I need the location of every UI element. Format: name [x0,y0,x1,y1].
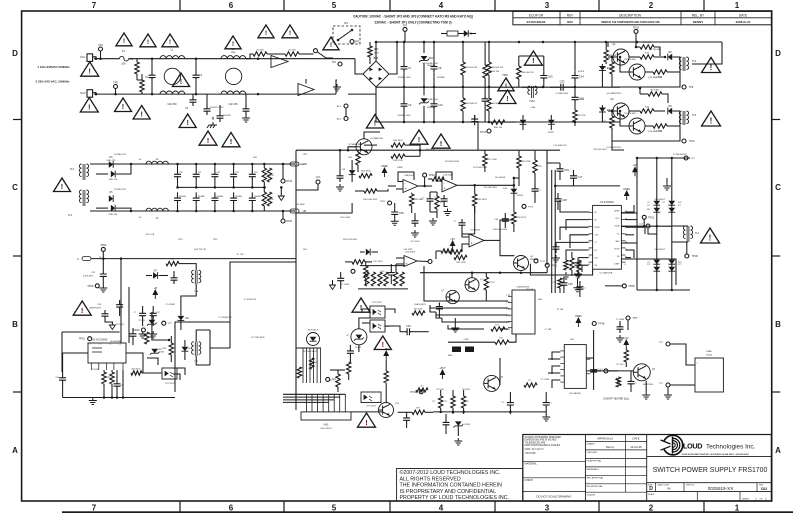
svg-text:R39 1K00 0603: R39 1K00 0603 [343,239,358,241]
wire UREF feed [554,185,620,188]
svg-text:TP38: TP38 [598,322,605,326]
svg-text:2MH: 2MH [231,52,236,54]
output tag +UB [290,162,307,166]
svg-text:Denny: Denny [606,445,615,449]
svg-text:2 230÷240 VAC, 50/60Hz: 2 230÷240 VAC, 50/60Hz [36,79,70,83]
svg-text:SYNC: SYNC [595,227,601,229]
svg-text:R? 1K0: R? 1K0 [617,364,625,366]
svg-text:!: ! [365,418,368,427]
svg-text:S20: S20 [678,262,681,264]
test point TP52 [100,243,107,252]
svg-text:FR107: FR107 [548,132,555,134]
resistor R21 [391,140,405,147]
capacitor C63 [336,172,344,191]
capacitor C1 [145,57,156,95]
wire lower bus drop [477,122,479,150]
wire bottom left link [330,369,345,371]
label smear 26 [374,261,384,263]
test point TP3 [350,40,360,44]
resistor R24 [355,189,388,193]
svg-text:U6 SG6848T: U6 SG6848T [110,341,123,343]
output tag -UB [290,209,307,213]
svg-text:4.7K 0603: 4.7K 0603 [425,149,435,151]
svg-text:!: ! [88,103,91,112]
test point TP13 [480,129,491,134]
resistor R48 [562,258,570,279]
svg-text:±1/64 .XX ±.01 ±1°: ±1/64 .XX ±.01 ±1° [525,449,544,451]
svg-text:1: 1 [735,1,740,10]
fuse F1 [120,50,129,66]
test point TP31 [659,342,695,365]
test point TP36 [133,328,145,332]
svg-text:D5: D5 [668,50,672,54]
wire AC line top [94,58,120,60]
svg-text:R34 1K74: R34 1K74 [517,217,527,219]
wire housekeeping link [147,358,158,365]
diode D14 [178,308,190,330]
resistor R12 [629,53,665,60]
connector KN-2 [80,90,97,98]
capacitor CC1 [421,192,433,212]
wire U1A in [388,186,403,189]
ground 5 [663,178,671,190]
svg-text:C16 10MF 25V: C16 10MF 25V [553,145,567,147]
warning triangle T1 [116,33,132,46]
zener D16 [150,349,163,355]
svg-text:U1D 3403: U1D 3403 [405,252,416,254]
warning triangle W8 [222,133,240,147]
capacitor C6 [243,94,250,115]
label smear 58 [99,254,244,259]
resistor R16b [517,150,532,178]
svg-text:1: 1 [735,504,740,513]
transformer TL4 [672,226,700,242]
PWM IC U2 [589,201,628,269]
test point TP21 [642,215,655,226]
capacitor C58 [628,371,638,392]
resistor RD2 [416,386,428,393]
label smear 23 [445,161,460,163]
svg-text:C02: C02 [761,487,768,491]
svg-text:REMOVE THE COMPONENTS AND ASSO: REMOVE THE COMPONENTS AND ASSOCIATED USE [601,21,660,24]
svg-text:U5 U08: U5 U08 [256,50,264,52]
input voltage note [36,65,71,83]
svg-text:5: 5 [332,504,337,513]
resistor R26 [428,177,444,181]
opto U10 [361,392,381,407]
resistor R35 [160,336,173,362]
svg-text:KN-2: KN-2 [80,93,86,95]
wire U1A fb [398,172,414,182]
svg-text:UAF 250: UAF 250 [167,103,177,106]
svg-text:+5V: +5V [450,237,455,241]
svg-text:2 TR: 2 TR [506,302,511,304]
svg-text:(ON/OFF HEATER 2(s)): (ON/OFF HEATER 2(s)) [603,398,629,401]
test point TP4 [332,62,342,66]
diode DC1 [360,249,378,256]
resistor RC2 [435,192,444,218]
label smear 31 [538,299,542,301]
inductor L3 [221,48,246,59]
capacitor C62 [453,219,465,229]
inrush resistor RT3 [267,50,314,57]
svg-text:TP30: TP30 [692,254,699,258]
svg-text:C43 47PF: C43 47PF [403,249,413,251]
svg-text:R7 56K 2W: R7 56K 2W [488,71,500,73]
warning triangle T6 [282,25,298,38]
capacitor C39 [434,195,451,216]
svg-text:B: B [12,320,18,329]
warning triangle T4 [225,36,241,49]
resistor R6 [487,87,500,122]
svg-text:TP51: TP51 [79,337,86,341]
wire pin14 out [621,225,671,228]
caution note text [353,14,473,24]
resistor R15 [640,90,668,104]
capacitor C41 [381,264,395,284]
svg-text:C17: C17 [578,175,583,179]
resistor R27 [473,185,488,213]
optocoupler U7 [162,368,177,385]
title block number row [648,483,767,501]
test point TPC [296,176,321,191]
resistor RA1 [365,272,369,286]
transformer L5A2 [522,86,542,103]
label smear 29 [295,204,305,206]
title block approvals column [585,435,646,497]
diode D9 [109,192,113,202]
svg-text:B: B [775,320,781,329]
wire output horizontal top [636,157,690,160]
svg-text:!: ! [330,42,332,49]
svg-text:R?: R? [433,401,435,403]
svg-text:7: 7 [92,1,97,10]
svg-text:5 TR: 5 TR [506,322,511,324]
svg-text:R66 560 2W: R66 560 2W [522,72,535,74]
title block outline [523,435,772,502]
connector KN3 pin wires [307,394,346,412]
svg-text:!: ! [140,110,142,119]
svg-text:TP?: TP? [316,176,321,180]
svg-text:1000MF: 1000MF [198,196,206,198]
svg-text:C9: C9 [408,103,412,107]
svg-text:U5A N BXXX: U5A N BXXX [414,303,426,306]
chassis ground [207,117,217,128]
label smear 4 [425,149,435,151]
wire R21 link [364,145,420,150]
svg-text:C? 470MF: C? 470MF [165,304,175,306]
resistor R13 [602,56,614,80]
capacitor C31 [576,281,586,297]
lamp HL1 [337,104,348,121]
svg-text:!: ! [180,77,182,86]
svg-text:R? 1K: R? 1K [489,282,495,284]
label smear 10 [116,324,125,326]
bleeder resistor R20b [267,192,271,206]
svg-text:1000MF: 1000MF [254,196,262,198]
svg-text:20A: 20A [121,63,126,66]
test point TP37 [595,369,618,373]
transistor QB [441,290,459,304]
svg-text:REV: REV [567,13,574,17]
svg-text:C53: C53 [560,80,565,84]
power arrow +HV [632,163,637,176]
heater note [603,398,629,401]
capacitor CE1 [443,414,450,434]
wire opto U7 out [173,368,185,380]
capacitor C46 [116,300,123,316]
svg-text:Q14 MMBT5551: Q14 MMBT5551 [607,147,623,149]
svg-text:THE INFORMATION CONTAINED HERE: THE INFORMATION CONTAINED HEREIN [400,483,503,489]
label smear 20 [403,249,413,251]
ground 7 [542,414,550,421]
bleeder resistor R19b [267,168,271,182]
svg-text:230VAC→SHORT JP1 ONLY (CONNECT: 230VAC→SHORT JP1 ONLY (CONNECTING TOM 3) [374,20,451,24]
wire net G [500,240,514,255]
svg-text:TL2: TL2 [70,168,75,171]
relay buffer B2 [298,79,314,96]
svg-text:PROPERTY OF LOUD TECHNOLOGIES: PROPERTY OF LOUD TECHNOLOGIES INC. [400,495,510,501]
capacitor C4 [204,94,224,115]
svg-text:R? 2K00: R? 2K00 [116,324,125,326]
label smear 28 [295,164,305,166]
resistor R49 [444,250,462,254]
wire net J [295,358,297,402]
resistor R38 [347,362,351,380]
test point TPF [410,390,423,394]
svg-text:CHECKED: CHECKED [587,452,598,454]
power arrow +B3 [384,347,389,371]
resistor R23 [359,171,372,178]
svg-text:GND: GND [615,241,620,243]
svg-text:C? 2200MF 200V: C? 2200MF 200V [422,99,438,101]
svg-text:!: ! [289,30,291,37]
label smear 45 [673,154,688,156]
jumper JP1 dashed box [333,22,360,44]
transistor Q1 [608,43,629,65]
resistor RA6 [400,272,404,286]
svg-text:6 TR: 6 TR [506,329,511,331]
warning triangle W22 [352,298,370,312]
capacitor C57 [590,330,604,390]
capacitor C40 [494,213,509,228]
diode D4 [599,105,614,122]
resistor RB2 [491,325,505,332]
svg-text:2: 2 [649,504,654,513]
svg-text:DATE: DATE [739,13,747,17]
svg-text:TP11: TP11 [540,261,546,263]
svg-text:+: + [406,262,408,266]
bulk capacitor C9 [397,87,411,122]
capacitor C49 [130,328,137,345]
svg-text:C50B: C50B [463,339,469,341]
label smear 2 [343,239,358,241]
svg-text:C? 47MF 25V: C? 47MF 25V [244,299,257,301]
svg-text:MOV: MOV [374,52,380,54]
capacitor CA1 [337,272,344,289]
diode D3 [599,64,614,87]
svg-text:7: 7 [92,504,97,513]
op-amp U1D [404,252,428,267]
wire PWM right pin 4 [625,234,634,236]
svg-text:R42 100K: R42 100K [456,262,466,264]
resistor R36 [166,259,190,266]
svg-text:R30 100K 0603: R30 100K 0603 [363,199,378,201]
svg-text:UAF 250: UAF 250 [228,103,238,106]
resistor R17 [602,110,614,134]
power arrow +5V b [624,336,629,349]
label smear 52 [303,154,309,251]
capacitor C54 [572,42,585,87]
label smear 33 [448,355,454,357]
wire bundle horizontals [283,394,345,402]
wire bus corner [692,42,722,64]
label smear 40 [252,337,266,339]
svg-text:C24 CAP 0603: C24 CAP 0603 [483,186,497,189]
diode D15 [146,269,168,279]
resistor R51 [412,309,425,316]
label smear 22 [397,167,403,169]
warning triangle W14 [702,58,721,73]
test point TP38 [592,322,605,326]
label smear 43 [114,189,126,191]
svg-text:ZD1: ZD1 [429,56,434,60]
transformer TL2 [679,57,696,72]
HV+ bus wire [376,41,722,44]
wire U1B out to R27 [470,184,515,187]
label smear 39 [218,317,232,319]
svg-text:4: 4 [439,1,444,10]
warning triangle W11 [498,78,514,91]
svg-text:R17 100K 0603: R17 100K 0603 [473,167,488,169]
warning triangle W12 [499,74,516,104]
svg-text:S20: S20 [678,202,681,204]
resistor RA5 [393,272,405,286]
test point TPD [626,316,638,330]
svg-text:R02 1M00: R02 1M00 [295,164,305,166]
svg-text:!: ! [147,39,149,46]
opto U8 [370,302,385,318]
svg-text:6: 6 [229,1,234,10]
svg-text:U? PC817: U? PC817 [372,302,383,304]
svg-text:C10: C10 [438,103,443,107]
svg-text:U2 KA3525A: U2 KA3525A [600,272,613,275]
U2 pin names [595,211,621,268]
svg-text:R16 390K: R16 390K [522,161,532,163]
svg-text:!: ! [61,182,63,191]
resistor R46 [524,380,537,387]
diode D10 [96,205,132,216]
test point TP8 [633,25,640,47]
resistor R7 [483,42,500,87]
input tag T4 [76,251,296,261]
svg-text:TP16: TP16 [633,25,640,29]
resistor R30 [345,260,372,264]
wire D12 join [513,177,519,186]
wire PWM left pin 2 [566,220,589,230]
capacitor CC2 [532,180,542,203]
capacitor C56 [543,392,553,414]
resistor R47 [624,349,628,367]
resistor R22 [391,154,420,162]
label smear 13 [462,389,471,391]
svg-text:D?: D? [648,202,650,204]
bulk capacitor C7 [397,42,411,87]
svg-text:3: 3 [109,344,110,346]
svg-text:D6 FMU-22S: D6 FMU-22S [114,154,126,156]
svg-text:C33: C33 [406,324,411,328]
resistor R9 [573,108,586,126]
bleeder resistor R19 [262,163,274,188]
wire drive1 vertical [635,42,637,47]
transistor Q9 [379,403,400,418]
svg-text:B57 2R0 0805: B57 2R0 0805 [649,49,661,51]
svg-text:MMBT3906: MMBT3906 [643,384,653,386]
diode D7 [107,157,116,168]
wire PWM right pin 1 [625,205,634,212]
svg-text:D?: D? [648,262,650,264]
power ground 2 [87,284,107,292]
wire TL431 bot [358,345,360,352]
svg-text:1 TR: 1 TR [506,295,511,297]
svg-text:LED08: LED08 [517,195,524,197]
wire AC top to filter [129,58,259,60]
svg-text:2200PF 250V: 2200PF 250V [210,107,224,109]
svg-text:R15 2R2: R15 2R2 [651,90,660,92]
warning triangle T2 [140,34,156,47]
zener ZD2 [419,87,436,122]
transformer T2A [192,270,201,293]
transistor Q3 [608,98,629,119]
svg-text:FRACTIONS DECIMALS ANGLES: FRACTIONS DECIMALS ANGLES [525,444,561,447]
test point TPE [326,377,337,381]
label smear 53 [483,186,497,189]
svg-text:R? 100K: R? 100K [436,389,444,391]
svg-text:A: A [775,446,781,455]
wire output vertical 3 [671,158,673,290]
svg-text:!: ! [88,67,91,76]
capacitor C52 [501,392,514,414]
svg-text:TP2: TP2 [113,81,118,85]
label smear 59 [178,239,219,241]
svg-text:D9: D9 [185,316,189,320]
svg-text:KN-1: KN-1 [80,57,86,59]
svg-text:MCR100-6: MCR100-6 [308,330,319,332]
test point TP34 [423,173,436,187]
svg-text:!: ! [418,135,421,144]
svg-text:U5AF: U5AF [706,350,712,353]
op-amp U1C [469,230,500,247]
svg-text:2008-tb-24: 2008-tb-24 [736,20,751,24]
resistor RA3 [378,272,382,286]
resistor R37 [145,332,154,344]
warning triangle W16 [54,178,71,192]
fusible link F2 [441,31,473,36]
svg-text:VCC: VCC [615,218,620,220]
svg-text:FINISH: FINISH [525,479,533,482]
svg-text:C65: C65 [548,75,553,79]
svg-text:!: ! [123,38,125,45]
label smear 37 [89,344,120,346]
label smear 21 [348,144,362,146]
svg-text:MFG APPROVAL: MFG APPROVAL [587,477,605,480]
ground arrow B [330,280,336,290]
capacitor C29 [557,163,570,180]
svg-text:0603: 0603 [538,299,542,301]
svg-text:C8: C8 [438,66,442,70]
capacitor C50 [347,345,354,362]
wire PWM right pin 2 [625,219,637,221]
